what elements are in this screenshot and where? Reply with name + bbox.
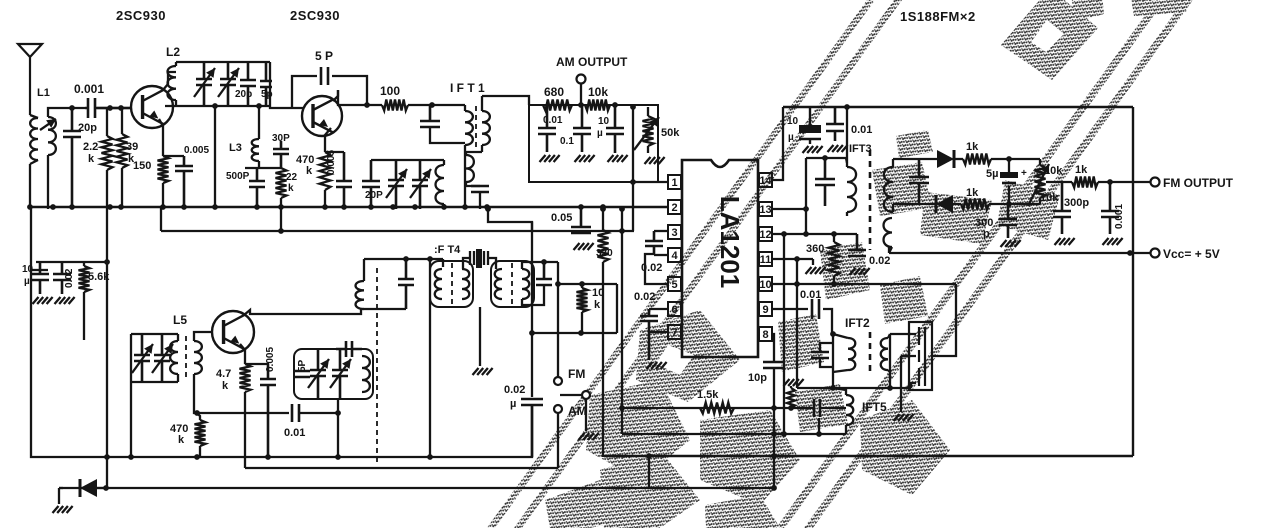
- junction bus1 x344: [341, 204, 347, 210]
- ground pin11: [806, 267, 826, 274]
- svg-text:0.005: 0.005: [265, 347, 276, 372]
- pin 6 stub: [681, 308, 682, 310]
- varcap FM RF: [196, 62, 212, 106]
- capacitor 300p det: [999, 204, 1017, 238]
- svg-text:2.2: 2.2: [83, 141, 98, 153]
- pin 7: [668, 325, 681, 339]
- svg-text:0.01: 0.01: [851, 124, 872, 136]
- wire Q3 collector: [244, 309, 361, 315]
- wire pot wiper out: [1046, 181, 1072, 183]
- capacitor IFT5: [814, 399, 820, 417]
- svg-text:0.02: 0.02: [64, 268, 75, 288]
- svg-text:5: 5: [671, 279, 677, 291]
- pin 5 stub: [681, 283, 682, 285]
- svg-text:100: 100: [380, 84, 400, 98]
- pin 12 stub: [758, 233, 759, 235]
- junction 581 333: [578, 330, 584, 336]
- svg-text:µ: µ: [788, 132, 794, 143]
- svg-text:0.01: 0.01: [543, 115, 563, 126]
- svg-text:0.05: 0.05: [551, 212, 572, 224]
- wire 5p to collector node: [332, 76, 367, 105]
- varcap AM RF 2: [412, 160, 428, 209]
- svg-text:3: 3: [671, 227, 677, 239]
- node Q1 base: [107, 105, 113, 111]
- svg-text:20p: 20p: [235, 89, 252, 100]
- junction 603 209: [600, 206, 606, 212]
- pin 1: [668, 175, 681, 189]
- junction bus1 x281: [278, 204, 284, 210]
- varcap FM RF 2: [220, 62, 236, 106]
- ground IFT4: [473, 368, 493, 375]
- watermark glyph b9: [872, 162, 932, 216]
- svg-text:4: 4: [671, 250, 678, 262]
- wire pin11: [771, 258, 813, 260]
- ground filter: [894, 414, 914, 421]
- capacitor 30P: [273, 141, 289, 168]
- svg-text:L1: L1: [37, 87, 50, 99]
- svg-text:50k: 50k: [661, 127, 680, 139]
- wire det box right: [1132, 107, 1134, 456]
- junction 797 284: [794, 281, 800, 287]
- wire filter bottom stub: [910, 383, 912, 388]
- wire y259: [364, 258, 443, 260]
- resistor 2.2k: [102, 136, 113, 170]
- svg-text:Vcc= + 5V: Vcc= + 5V: [1163, 247, 1220, 261]
- wire bus1-bus2 jog: [160, 207, 162, 231]
- IFT4 core2: [511, 263, 513, 305]
- svg-text:12: 12: [759, 229, 771, 241]
- wire step: [488, 209, 532, 232]
- wire L5 tank left down: [130, 382, 132, 457]
- junction 338 413: [335, 410, 341, 416]
- wire Q1 collector to tank: [163, 72, 176, 90]
- capacitor 0.001 series: [85, 98, 132, 118]
- wire pin8 down: [772, 334, 774, 362]
- resistor 1k bottom: [961, 199, 989, 210]
- pin 3 stub: [681, 231, 682, 233]
- diode D3 power: [79, 479, 82, 497]
- junction 784 234: [781, 231, 787, 237]
- wire det bottom: [893, 203, 936, 205]
- wire osc fb right: [299, 412, 338, 414]
- junction bus1 x603: [600, 204, 606, 210]
- AM osc tank box: [294, 349, 373, 399]
- capacitor 5p osc: [294, 371, 310, 377]
- junction bus1 x257: [254, 204, 260, 210]
- wire Q2 collector2: [338, 90, 382, 105]
- junction bus1 x184: [181, 204, 187, 210]
- wire pin5: [645, 254, 668, 284]
- watermark glyph b10: [920, 192, 992, 244]
- wire y434: [622, 433, 846, 435]
- wire pin1 link: [632, 182, 634, 231]
- IFT1 secondary: [482, 111, 490, 145]
- svg-text:+: +: [1021, 168, 1027, 179]
- pin 10: [759, 277, 772, 291]
- node base Q1 junction: [69, 105, 75, 111]
- node L3 top: [256, 103, 262, 109]
- svg-text:10: 10: [787, 116, 799, 127]
- svg-text:p: p: [983, 228, 990, 240]
- IFT4 box1: [430, 261, 473, 307]
- capacitor 0.02u switch: [521, 399, 543, 457]
- wire L2 tank bottom: [165, 105, 270, 107]
- svg-text:300p: 300p: [1064, 197, 1089, 209]
- wire emitter to cap: [325, 151, 344, 153]
- svg-text:k: k: [88, 153, 95, 165]
- IFT3 primary: [847, 167, 856, 212]
- wire ift5 cap down: [818, 418, 820, 434]
- ground 0.05: [574, 243, 594, 250]
- capacitor 0.01 am: [538, 105, 556, 152]
- wire coilD top: [522, 262, 558, 269]
- IFT2 core: [869, 332, 872, 376]
- wire pin9a: [771, 308, 808, 310]
- pin 9 stub: [758, 308, 759, 310]
- ground 0.1 am: [575, 155, 595, 162]
- svg-text:10k: 10k: [1044, 165, 1063, 177]
- ground pin7: [647, 362, 667, 369]
- wire osc fb: [197, 412, 289, 414]
- watermark glyph b2: [586, 380, 690, 480]
- IFT3 tertiary: [884, 218, 892, 247]
- svg-text:2SC930: 2SC930: [116, 8, 166, 23]
- node wiper pin1: [630, 179, 636, 185]
- resistor 470k Q2: [320, 152, 331, 190]
- terminal SW common: [582, 391, 590, 399]
- svg-text:FM: FM: [568, 367, 585, 381]
- junction bus1 x30: [27, 204, 33, 210]
- wire tank to Q2 base: [270, 106, 303, 108]
- wire cap to Q1 base: [97, 107, 131, 109]
- wire antenna top node: [56, 107, 85, 109]
- svg-text:L5: L5: [173, 313, 187, 327]
- IFT4 core1: [451, 263, 453, 305]
- node IFT1 top: [429, 102, 435, 108]
- terminal AM OUTPUT: [577, 75, 586, 84]
- wire Q1 emitter: [159, 119, 163, 156]
- svg-text:0.02: 0.02: [634, 291, 655, 303]
- junction 834 284: [831, 281, 837, 287]
- junction 774 488: [771, 485, 777, 491]
- pin 14 stub: [758, 179, 759, 181]
- pin 10 stub: [758, 283, 759, 285]
- ground r791: [784, 379, 804, 386]
- wire det out bottom: [989, 203, 1040, 205]
- wire bias feed: [106, 207, 108, 488]
- IFT2 primary: [848, 338, 855, 370]
- junction 1009 159: [1006, 156, 1012, 162]
- wire rail to IFT3: [846, 107, 848, 163]
- junction bus1 x487: [484, 204, 490, 210]
- resistor 39k: [117, 134, 128, 168]
- wire y468: [245, 467, 558, 469]
- wire y309: [364, 308, 406, 310]
- svg-text:AM: AM: [568, 404, 587, 418]
- junction bus1 x72: [69, 204, 75, 210]
- junction bus1 x215: [212, 204, 218, 210]
- wire v649: [648, 456, 650, 488]
- capacitor osc top: [336, 341, 362, 357]
- wire 100 to IFT1: [408, 104, 465, 106]
- wire L2 tank top: [176, 61, 270, 63]
- ground 300p det: [1001, 240, 1021, 247]
- inductor AM RF coil: [436, 165, 444, 204]
- node 39k top: [118, 105, 124, 111]
- wire pin9b: [823, 309, 832, 334]
- wire y408: [622, 407, 814, 409]
- svg-text:IFT3: IFT3: [849, 143, 872, 155]
- wire bias rail: [36, 261, 107, 263]
- wire y284: [558, 283, 617, 285]
- capacitor 0.001 out: [1101, 182, 1119, 234]
- node 10u am: [612, 102, 618, 108]
- resistor 150: [158, 156, 169, 183]
- node 633 107: [630, 104, 636, 110]
- wire ift5 cap right: [820, 407, 846, 409]
- IFT4 box2: [491, 261, 534, 307]
- wire busA2 corner: [603, 456, 605, 457]
- junction step: [485, 206, 491, 212]
- ground 10u bias: [33, 297, 53, 304]
- junction 832 334: [830, 331, 836, 337]
- junction 1110 182: [1107, 179, 1113, 185]
- svg-text:150: 150: [133, 160, 151, 172]
- svg-text:k: k: [178, 434, 185, 446]
- wire y333: [532, 332, 617, 334]
- junction busA x197: [194, 454, 200, 460]
- pin 12: [759, 227, 772, 241]
- wire Q3 emitter: [240, 344, 245, 364]
- ceramic filter CF: [909, 322, 932, 390]
- switch lever: [560, 394, 582, 396]
- junction bus1 x121: [118, 204, 124, 210]
- IFT4 coilA: [435, 269, 442, 299]
- svg-text:0.02: 0.02: [869, 255, 890, 267]
- svg-text:1S188FM×2: 1S188FM×2: [900, 9, 976, 24]
- resistor 680: [543, 100, 572, 111]
- svg-text:2: 2: [671, 202, 677, 214]
- ground 0.02 pin12: [850, 268, 870, 275]
- svg-text:AM OUTPUT: AM OUTPUT: [556, 55, 628, 69]
- resistor 5.6k: [79, 266, 90, 292]
- wire y158: [806, 157, 846, 159]
- inductor L2: [168, 66, 176, 100]
- svg-text:10k: 10k: [1040, 192, 1059, 204]
- junction 544 262: [541, 259, 547, 265]
- svg-text:FM OUTPUT: FM OUTPUT: [1163, 176, 1234, 190]
- svg-text:5.6k: 5.6k: [88, 271, 110, 283]
- pin 4 stub: [681, 254, 682, 256]
- watermark glyph b8: [880, 276, 928, 324]
- capacitor 0.01 osc: [292, 404, 299, 422]
- svg-text:4.7: 4.7: [216, 368, 231, 380]
- wire IFT1 sec top: [482, 96, 529, 105]
- svg-text:I F T 1: I F T 1: [450, 81, 485, 95]
- capacitor IFT3 tune: [815, 158, 835, 206]
- svg-text:0.005: 0.005: [184, 145, 209, 156]
- svg-text:360: 360: [806, 243, 824, 255]
- pin 13 stub: [758, 208, 759, 210]
- wire v430: [429, 259, 431, 457]
- watermark glyph b6b: [795, 384, 848, 432]
- capacitor 300p out: [1053, 182, 1071, 234]
- wire L5 tank bottom: [131, 381, 178, 383]
- svg-text:L2: L2: [166, 45, 180, 59]
- varcap AM osc b: [154, 334, 170, 382]
- junction 825 158: [822, 155, 828, 161]
- watermark glyph tr1: [1071, 0, 1104, 22]
- svg-text:0.02: 0.02: [504, 384, 525, 396]
- wire det out top: [991, 158, 1040, 160]
- pin 6: [668, 302, 681, 316]
- junction busA x131: [128, 454, 134, 460]
- capacitor conv: [398, 259, 414, 309]
- wire v622: [621, 209, 623, 434]
- inductor osc coil: [362, 356, 370, 392]
- junction 622 209: [619, 206, 625, 212]
- watermark glyph b9b: [820, 242, 870, 300]
- junction 833 388: [830, 385, 836, 391]
- IFT2 secondary: [881, 338, 888, 370]
- watermark glyph b4: [700, 410, 800, 505]
- capacitor 5p feedback: [321, 67, 328, 85]
- wire pin4: [654, 254, 668, 256]
- svg-text:5 P: 5 P: [315, 49, 333, 63]
- watermark stripe pair 2: [776, 0, 1165, 528]
- junction 774 434: [771, 431, 777, 437]
- pin 11: [759, 252, 772, 266]
- capacitor 0.1 am: [573, 105, 591, 152]
- node am out: [578, 102, 584, 108]
- ground 0.001 out: [1103, 238, 1123, 245]
- capacitor IFT1 tert: [471, 186, 489, 192]
- capacitor 20p: [63, 108, 81, 207]
- svg-text:1: 1: [671, 177, 677, 189]
- junction 533 333: [529, 330, 535, 336]
- diode D1: [953, 150, 956, 168]
- pin 1 stub: [681, 181, 682, 183]
- wire Q2 emitter: [325, 128, 331, 152]
- junction 791 408: [788, 405, 794, 411]
- svg-text:IFT5: IFT5: [862, 400, 887, 414]
- svg-text:7: 7: [671, 327, 677, 339]
- resistor r791: [787, 388, 795, 408]
- wire sec to filter: [890, 333, 911, 335]
- wire pin12: [771, 233, 857, 235]
- ground 300p out: [1055, 238, 1075, 245]
- svg-text:0.005: 0.005: [326, 150, 337, 175]
- wire v533 low: [531, 333, 533, 397]
- wire sec bottom: [889, 372, 891, 388]
- node L5 sec bottom: [194, 410, 200, 416]
- svg-text:1k: 1k: [1075, 164, 1088, 176]
- pin 8 stub: [758, 333, 759, 335]
- inductor L3: [252, 139, 259, 161]
- terminal Vcc: [1151, 249, 1160, 258]
- pin 14: [759, 173, 772, 187]
- wire busB: [59, 487, 773, 489]
- svg-text:k: k: [594, 299, 601, 311]
- svg-text:IFT2: IFT2: [845, 316, 870, 330]
- pin 2: [668, 200, 681, 214]
- wire pin7: [649, 331, 668, 333]
- junction 774 408: [771, 405, 777, 411]
- svg-text:10: 10: [592, 287, 604, 299]
- pin 4: [668, 248, 681, 262]
- capacitor 0.01 fm: [826, 107, 844, 141]
- wire fm stub: [557, 262, 559, 377]
- junction 106 488: [103, 485, 109, 491]
- wire det top: [893, 158, 937, 160]
- svg-text:14: 14: [759, 175, 772, 187]
- capacitor 20p tank: [240, 62, 256, 106]
- watermark glyph ring: [1001, 0, 1098, 80]
- svg-text:0.1: 0.1: [560, 136, 574, 147]
- capacitor IFT2: [811, 352, 829, 358]
- IFT4 coilC: [495, 269, 502, 299]
- svg-text:9: 9: [762, 304, 768, 316]
- junction vcc box: [1127, 250, 1133, 256]
- capacitor 10u am: [606, 105, 624, 153]
- svg-text:10: 10: [759, 279, 771, 291]
- junction 622 231: [619, 228, 625, 234]
- pin 5: [668, 277, 681, 291]
- capacitor 10u bias: [31, 262, 49, 294]
- svg-text:k: k: [306, 165, 313, 177]
- wire v531: [531, 222, 533, 333]
- transistor Q2 2SC930: [302, 96, 342, 136]
- svg-text:1k: 1k: [966, 187, 979, 199]
- watermark glyph b9c: [896, 130, 933, 158]
- watermark glyph b7: [860, 400, 950, 495]
- junction bus1 x581: [578, 204, 584, 210]
- wire bus1 ground rail: [30, 206, 668, 208]
- wire bus2: [161, 230, 634, 232]
- resistor 330: [598, 230, 609, 262]
- junction 406 259: [403, 256, 409, 262]
- potentiometer 10k: [1035, 165, 1046, 198]
- pin 13: [759, 202, 772, 216]
- svg-text:LA1201: LA1201: [715, 196, 745, 289]
- junction busA x430: [427, 454, 433, 460]
- terminal FM: [554, 377, 562, 385]
- potentiometer 50k: [643, 116, 654, 146]
- junction 774 456: [771, 453, 777, 459]
- resistor 470k osc: [195, 420, 206, 446]
- IFT4 coilB: [462, 269, 469, 299]
- capacitor 0.02 pin6: [640, 309, 658, 360]
- watermark glyph b5: [705, 495, 780, 528]
- wire fm out: [1098, 181, 1150, 183]
- capacitor 0.01 pin9: [812, 299, 819, 319]
- watermark glyph b3: [600, 450, 700, 528]
- inductor conv coil: [356, 281, 364, 309]
- IC LA1201 body: [682, 160, 758, 357]
- wire pin8 down2: [773, 368, 775, 487]
- node Q2 collector: [364, 102, 370, 108]
- svg-text:20P: 20P: [365, 190, 383, 201]
- wire pin1 wire: [634, 181, 668, 183]
- junction bus1 x465: [462, 204, 468, 210]
- resistor 10k am: [585, 100, 610, 111]
- tuning gang dashed link: [376, 268, 378, 462]
- svg-text:k: k: [288, 183, 294, 194]
- junction busA x338: [335, 454, 341, 460]
- IFT3 core: [869, 150, 872, 250]
- wire 50k wiper down: [632, 107, 634, 182]
- pin 8: [759, 327, 772, 341]
